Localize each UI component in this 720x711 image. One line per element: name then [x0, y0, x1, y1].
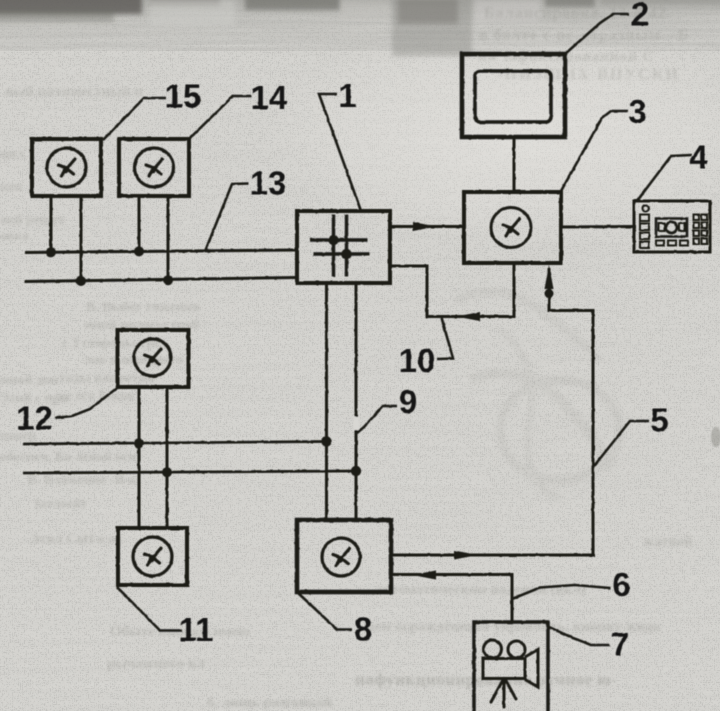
junction dot bus3 end [321, 436, 331, 446]
junction dot bus1/15 [46, 247, 56, 257]
svg-text:1: 1 [338, 77, 356, 114]
faint image bleed blobs [455, 292, 620, 500]
wire bus1 (upper CAN line A) [25, 250, 297, 253]
block 2 display monitor [462, 54, 565, 137]
wire bus2 (upper CAN line B) [25, 278, 297, 282]
block 11 wheel sensor [118, 528, 187, 585]
leader 1 [319, 94, 361, 211]
block 14 wheel sensor [119, 139, 189, 196]
arrow up into block3 [545, 265, 554, 289]
svg-text:обеспеч. Ба левой оси: обеспеч. Ба левой оси [0, 450, 136, 465]
svg-text:5: 5 [650, 402, 668, 439]
wire stub sensor 12 left down to block11 [138, 387, 141, 528]
block 1 hydraulic modulator [297, 211, 390, 283]
arrow right block1->block3 [413, 222, 436, 231]
svg-text:7: 7 [611, 626, 629, 663]
leader 7 [549, 627, 610, 645]
svg-text:11: 11 [179, 611, 214, 648]
wire stub sensor 12 right down to block11 [166, 387, 169, 528]
block 7 video camera box [474, 622, 548, 711]
junction dot bus2/15 [76, 276, 86, 286]
leader 5 [594, 421, 649, 466]
wire block3 to block4 [561, 225, 634, 229]
block 12 wheel sensor [118, 330, 189, 387]
block 4 control panel [634, 201, 710, 252]
scan top shadow band [0, 0, 720, 52]
block 8 control unit [297, 520, 391, 592]
svg-text:8: 8 [354, 611, 372, 648]
svg-text:ный пятиместный п: ный пятиместный п [5, 84, 143, 100]
svg-text:6: 6 [612, 566, 630, 603]
arrow right on wire5 [454, 551, 478, 560]
block 15 wheel sensor [32, 139, 101, 196]
junction dot bus3/12 [134, 438, 144, 448]
svg-text:мной доп: мной доп [0, 373, 58, 388]
junction dot bus4 end [351, 466, 361, 476]
junction dot bus1/14 [134, 246, 144, 256]
svg-text:ней решет: ней решет [0, 213, 65, 228]
wire vertical block1 to block8 right [355, 283, 358, 520]
leader 8 [297, 592, 352, 630]
leader 14 [189, 96, 251, 139]
wire block2 to block3 [513, 137, 516, 192]
arrow left on loop10 [456, 312, 480, 321]
wire stub sensor 15 right [80, 196, 83, 281]
svg-text:овка: овка [0, 229, 29, 244]
svg-text:14: 14 [251, 79, 288, 116]
wire 5 (block8 to block3 bottom) [391, 268, 593, 555]
camera tripod [491, 679, 516, 707]
camera body [483, 659, 525, 679]
svg-text:В. Влажение -Я-к: В. Влажение -Я-к [27, 473, 138, 488]
wire 6 (camera to block8) [391, 575, 512, 623]
wire stub sensor 14 right [167, 196, 170, 281]
wire bus3 (lower line A) [23, 442, 327, 445]
svg-text:12: 12 [16, 400, 53, 437]
wire vertical block1 to block8 left [325, 283, 328, 520]
leader 12 [55, 388, 117, 418]
svg-text:- Этил СаН о ок: - Этил СаН о ок [22, 532, 124, 547]
svg-text:3: 3 [628, 93, 646, 130]
svg-text:13: 13 [250, 165, 287, 202]
svg-text:автоматическом падении (вкл): автоматическом падении (вкл) [376, 582, 586, 598]
block 3 control unit [464, 192, 561, 263]
svg-text:-НИЗШИХ ВПУСКН: -НИЗШИХ ВПУСКН [497, 66, 680, 83]
svg-text:жатвой: жатвой [643, 534, 693, 550]
dot on wire5 tail [545, 289, 554, 298]
arrow left into block8 [412, 571, 436, 580]
leader 15 [103, 98, 166, 140]
svg-text:4: 4 [689, 139, 708, 176]
wire block1 to block3 [390, 225, 464, 228]
leader 6 [512, 585, 610, 599]
svg-text:9: 9 [399, 383, 417, 420]
wire stub sensor 14 left [138, 196, 141, 252]
svg-text:6. лишь разгонкой: 6. лишь разгонкой [207, 695, 333, 711]
right edge small mark [711, 427, 720, 447]
svg-text:цил.: цил. [0, 147, 28, 162]
leader 11 [117, 587, 182, 631]
leader 13 [205, 184, 249, 252]
wire bus4 (lower line B) [23, 471, 356, 473]
camera reel left [484, 640, 502, 658]
page fold line [262, 0, 264, 711]
camera reel right [508, 641, 525, 658]
leader 10 [437, 318, 453, 360]
svg-text:15: 15 [165, 78, 202, 115]
svg-text:2: 2 [631, 0, 649, 33]
svg-text:В. Выбег тяжении: В. Выбег тяжении [86, 300, 200, 315]
wire loop 10 (block3 bottom to block1 right) [390, 263, 514, 317]
junction dot bus2/14 [163, 275, 173, 285]
wire stub sensor 15 left [50, 196, 53, 252]
svg-text:неп: неп [0, 180, 22, 195]
leader 3 [561, 111, 628, 191]
svg-text:(атлеей): (атлеей) [35, 497, 86, 512]
leader 2 [565, 14, 629, 54]
svg-text:10: 10 [399, 342, 436, 379]
camera lens [525, 650, 538, 688]
leader 9 [357, 406, 397, 433]
leader 4 [637, 155, 692, 201]
svg-text:рычажного кл: рычажного кл [107, 656, 205, 672]
junction dot bus4/12 [162, 467, 172, 477]
